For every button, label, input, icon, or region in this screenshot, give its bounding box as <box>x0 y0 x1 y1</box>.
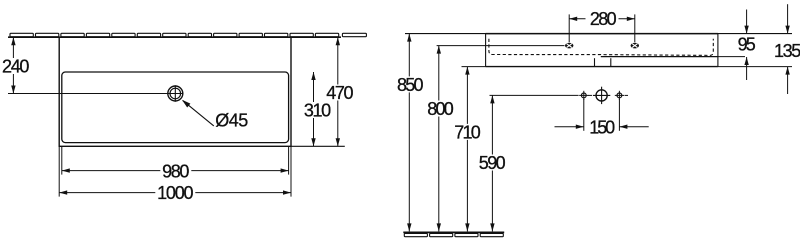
basin top edge with extensions (front view) <box>405 33 792 35</box>
svg-text:Ø45: Ø45 <box>215 111 248 131</box>
dimension 800 <box>437 46 441 232</box>
dimension 710 <box>465 67 469 232</box>
svg-text:310: 310 <box>304 101 331 121</box>
dimension 1000 <box>59 190 291 194</box>
extension line from left fixing hole to 800 dim <box>437 45 565 47</box>
dimension 980 <box>62 168 289 172</box>
tap hole (top view) <box>167 85 183 101</box>
basin inner bowl outline (top view) <box>62 72 289 143</box>
dimension 150 <box>555 125 649 129</box>
wall tile strip baseline (top view) <box>8 36 341 38</box>
drain recess ticks <box>594 58 596 66</box>
hidden bowl contour (dashed) <box>489 39 713 56</box>
svg-text:95: 95 <box>738 35 756 55</box>
dimension 280 <box>569 17 635 21</box>
extension lines for 1000 <box>59 146 291 196</box>
tap hole center line (front view) <box>490 94 629 96</box>
svg-text:1000: 1000 <box>157 183 193 203</box>
svg-text:710: 710 <box>454 122 481 142</box>
bottom edge extension line (top view) <box>291 145 345 147</box>
svg-text:850: 850 <box>397 75 424 95</box>
svg-text:800: 800 <box>427 99 454 119</box>
left small tap hole <box>579 91 588 100</box>
svg-text:590: 590 <box>479 153 506 173</box>
floor line <box>403 231 504 233</box>
right fixing hole <box>631 43 639 49</box>
basin right edge (front view) <box>717 34 719 67</box>
dimension 240 <box>11 37 15 93</box>
svg-text:980: 980 <box>162 161 189 181</box>
extension lines for 280 <box>569 14 635 42</box>
basin bottom edge (front view) <box>486 66 718 68</box>
left fixing hole <box>565 43 573 49</box>
dimension 850 <box>407 34 411 232</box>
leader arrow for tap hole diameter <box>182 100 214 126</box>
extension line from tap hole to 240 dim <box>8 93 168 95</box>
basin outer outline (top view) <box>59 37 291 146</box>
dimension 470 <box>336 37 340 146</box>
right small tap hole <box>615 91 624 100</box>
floor tiles row <box>404 233 503 236</box>
svg-text:150: 150 <box>589 118 615 138</box>
wall tiles row <box>10 33 366 36</box>
extension lines for 980 <box>62 146 289 174</box>
extension lines for 150 <box>584 99 620 131</box>
dimension 590 <box>490 95 494 231</box>
dimension 135 <box>785 4 789 94</box>
basin front apron lower edge (95 level) <box>601 56 718 58</box>
dimension 95 <box>744 10 748 81</box>
basin left edge (front view) <box>485 34 487 67</box>
svg-text:240: 240 <box>2 57 29 77</box>
center tap hole <box>593 87 610 104</box>
svg-text:280: 280 <box>590 9 617 29</box>
svg-text:135: 135 <box>774 41 800 61</box>
dimension 310 <box>311 72 315 146</box>
text mask rects <box>1 11 619 201</box>
